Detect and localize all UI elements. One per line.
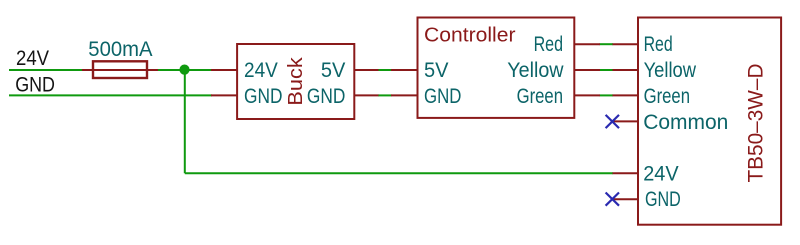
controller U2 pin GND stub xyxy=(391,94,418,96)
wire buck GND to controller GND xyxy=(378,94,392,96)
wire long horizontal 24V to TB50 xyxy=(185,172,613,174)
wire controller Green to TB50 Green xyxy=(600,94,614,96)
no-connect X at GND xyxy=(606,193,619,206)
svg-text:Yellow: Yellow xyxy=(507,59,564,82)
controller U2 pin Green stub xyxy=(574,94,600,96)
buck U1 pin GND-left stub xyxy=(211,94,237,96)
wire buck 5V to controller 5V xyxy=(378,69,392,71)
junction dot xyxy=(179,65,189,75)
svg-text:Red: Red xyxy=(644,33,673,56)
fuse F1 body xyxy=(93,61,147,78)
svg-text:Green: Green xyxy=(644,85,690,108)
controller U2 pin 5V stub xyxy=(391,69,418,71)
svg-text:GND: GND xyxy=(307,85,346,108)
svg-text:Green: Green xyxy=(517,85,563,108)
buck U1 body xyxy=(237,44,354,119)
TB50 pin 24V stub xyxy=(613,172,639,174)
wire fuse to buck pin xyxy=(156,69,212,71)
svg-text:Buck: Buck xyxy=(284,57,307,106)
TB50 pin Green stub xyxy=(613,94,639,96)
svg-text:Common: Common xyxy=(643,111,728,134)
svg-text:Controller: Controller xyxy=(424,25,516,47)
TB50 pin Common stub xyxy=(613,120,639,122)
svg-text:5V: 5V xyxy=(424,59,449,82)
controller U2 pin Red stub xyxy=(574,43,600,45)
wire GND net xyxy=(9,94,212,96)
svg-text:GND: GND xyxy=(424,85,461,108)
controller U2 pin Yellow stub xyxy=(574,69,600,71)
buck U1 pin GND-right stub xyxy=(354,94,378,96)
wire 24V net from label to fuse xyxy=(9,69,84,71)
wire vertical drop from junction xyxy=(184,70,186,173)
svg-text:24V: 24V xyxy=(16,47,50,70)
svg-text:24V: 24V xyxy=(643,162,679,185)
TB50 pin GND stub xyxy=(613,198,639,200)
TB50 pin Red stub xyxy=(613,43,639,45)
svg-text:24V: 24V xyxy=(244,59,279,82)
wire controller Red to TB50 Red xyxy=(600,43,614,45)
svg-text:Yellow: Yellow xyxy=(644,59,697,82)
svg-text:500mA: 500mA xyxy=(88,37,153,61)
TB50 pin Yellow stub xyxy=(613,69,639,71)
svg-text:GND: GND xyxy=(244,85,283,108)
buck U1 pin 5V stub xyxy=(354,69,378,71)
svg-text:GND: GND xyxy=(15,74,55,97)
TB50 J1 body xyxy=(638,18,781,225)
no-connect X at Common xyxy=(606,115,619,128)
buck U1 pin 24V stub xyxy=(211,69,237,71)
svg-text:5V: 5V xyxy=(321,59,346,82)
controller U2 body xyxy=(418,18,575,118)
svg-text:Red: Red xyxy=(534,33,563,56)
wire controller Yellow to TB50 Yellow xyxy=(600,69,614,71)
fuse F1 lead line xyxy=(82,69,158,71)
svg-text:TB50–3W–D: TB50–3W–D xyxy=(743,64,767,183)
svg-text:GND: GND xyxy=(645,188,681,211)
